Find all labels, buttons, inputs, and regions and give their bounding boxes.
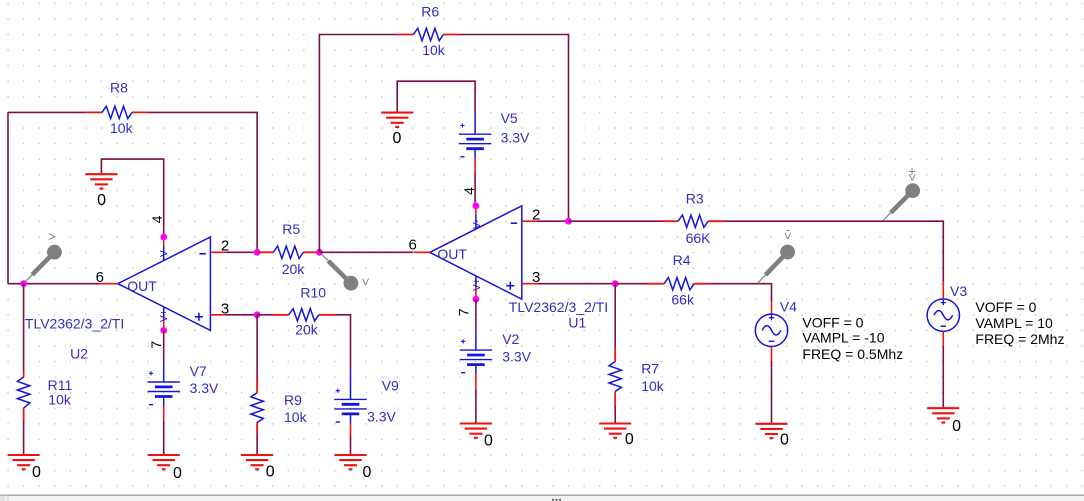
- label V3 VOFF: [975, 299, 1036, 315]
- wire V2 to ground: [475, 389, 477, 423]
- label R7 value 10k: [641, 378, 665, 394]
- label R8 value 10k: [110, 120, 134, 136]
- op-amp U2 output pin 6 stub: [99, 283, 118, 285]
- svg-text:4: 4: [149, 215, 165, 223]
- svg-text:V3: V3: [950, 283, 967, 299]
- op-amp U2 pin 7 stub: [163, 307, 165, 330]
- wire R11 drop: [23, 284, 25, 370]
- label V9: [382, 378, 399, 394]
- svg-text:6: 6: [409, 237, 417, 254]
- svg-text:0: 0: [625, 431, 634, 448]
- svg-text:FREQ = 0.5Mhz: FREQ = 0.5Mhz: [802, 346, 903, 362]
- op-amp U2 pin number 4: [149, 215, 165, 223]
- node U2 pin4 junction: [160, 234, 167, 241]
- op-amp U1 V- label: [472, 220, 483, 229]
- svg-text:3.3V: 3.3V: [501, 129, 530, 145]
- svg-text:>: >: [781, 232, 796, 240]
- label V4 VOFF: [802, 315, 863, 331]
- label V2: [502, 331, 519, 347]
- label R3 value 66K: [686, 230, 712, 246]
- op-amp U2 pin number 2: [221, 238, 229, 255]
- wire ground G1 to U2 pin4: [101, 159, 163, 237]
- op-amp U1 pin number 3: [532, 269, 540, 286]
- resistor R10: [273, 309, 335, 321]
- wire R10 to V9: [335, 315, 351, 370]
- label R6: [421, 4, 439, 20]
- op-amp U2 minus mark: [199, 253, 205, 255]
- svg-text:6: 6: [96, 269, 104, 286]
- label V4: [780, 298, 797, 314]
- op-amp U1 pin 7 stub: [475, 276, 477, 300]
- label R10: [300, 285, 326, 301]
- svg-text:>: >: [48, 229, 56, 244]
- svg-text:3.3V: 3.3V: [502, 349, 531, 365]
- op-amp U1 output pin 6 stub: [414, 251, 431, 253]
- op-amp U1 pin 4 stub: [475, 206, 477, 229]
- wire U1 pin7 to V2: [475, 299, 477, 327]
- ground below R9: [241, 455, 273, 469]
- voltage source V4 stub bottom: [771, 347, 773, 361]
- voltage source V4 stub top: [771, 302, 773, 315]
- svg-text:TLV2362/3_2/TI: TLV2362/3_2/TI: [509, 299, 608, 315]
- wire R3 to V3: [724, 221, 943, 282]
- resistor R6: [397, 28, 459, 40]
- probe marker minus near V4: [758, 222, 796, 283]
- wire R3 lead-in: [569, 220, 664, 222]
- label V3 FREQ: [975, 331, 1064, 347]
- svg-text:R3: R3: [686, 191, 704, 207]
- label net 0 G1: [97, 192, 106, 209]
- wire V5 plus loop: [397, 81, 475, 112]
- svg-text:R10: R10: [300, 285, 326, 301]
- wire U1 pin2 to R3 junction: [537, 220, 568, 222]
- label R8: [110, 79, 128, 95]
- svg-text:3.3V: 3.3V: [190, 380, 219, 396]
- svg-text:66K: 66K: [686, 230, 712, 246]
- resistor R3: [662, 215, 724, 227]
- voltage source V4: [755, 314, 787, 346]
- op-amp U2 plus mark: [195, 313, 203, 321]
- svg-text:VAMPL = 10: VAMPL = 10: [975, 315, 1053, 331]
- wire R5 right to U1 output: [319, 251, 413, 253]
- svg-text:>: >: [905, 174, 920, 182]
- ground below V2: [460, 424, 492, 438]
- wire U1 pin3 to R4 junction: [537, 283, 615, 285]
- op-amp U2 pin 2 stub: [210, 251, 226, 253]
- label U2 part name: [25, 316, 124, 332]
- ground G-V5: [381, 113, 413, 127]
- svg-text:R7: R7: [641, 361, 659, 377]
- svg-text:10k: 10k: [48, 392, 72, 408]
- op-amp U2 pin 4 stub: [163, 237, 165, 260]
- voltage source V3: [927, 299, 959, 331]
- svg-text:R9: R9: [284, 392, 302, 408]
- svg-text:0: 0: [780, 432, 789, 449]
- op-amp U1 V+ label: [472, 278, 483, 291]
- svg-text:20k: 20k: [295, 322, 319, 338]
- node U2 pin7 junction: [160, 327, 167, 334]
- svg-text:0: 0: [32, 464, 41, 481]
- svg-text:VOFF = 0: VOFF = 0: [802, 315, 863, 331]
- label R5 value 20k: [282, 261, 306, 277]
- op-amp U2 pin number 6: [96, 269, 104, 286]
- svg-text:V-: V-: [159, 248, 170, 257]
- svg-text:V+: V+: [159, 309, 170, 322]
- voltage source V9: [334, 370, 366, 436]
- wire R6 right vertical: [460, 35, 569, 222]
- node R5 right junction: [316, 249, 323, 256]
- ground below V9: [335, 455, 367, 469]
- wire R8 left segment: [8, 111, 86, 113]
- svg-text:V4: V4: [780, 298, 797, 314]
- svg-text:V2: V2: [502, 331, 519, 347]
- label V4 VAMPL: [802, 330, 884, 346]
- svg-text:0: 0: [362, 464, 371, 481]
- voltage source V2: [460, 327, 492, 389]
- op-amp U1 pin number 6: [409, 237, 417, 254]
- probe marker plus on R3 wire: [883, 164, 920, 221]
- op-amp U2 body: [118, 237, 211, 330]
- op-amp U1 pin number 7: [456, 308, 472, 316]
- svg-text:U2: U2: [70, 346, 88, 362]
- op-amp U1 pin number 2: [532, 206, 540, 223]
- svg-text:0: 0: [266, 464, 275, 481]
- resistor R5: [257, 246, 319, 258]
- label net 0 below V9: [362, 464, 371, 481]
- label V5 value 3.3V: [501, 129, 530, 145]
- wire R9 drop: [256, 315, 258, 378]
- svg-text:R6: R6: [421, 4, 439, 20]
- wire R7 to ground: [614, 406, 616, 424]
- label net 0 below V4: [780, 432, 789, 449]
- label R4: [673, 252, 691, 268]
- svg-text:TLV2362/3_2/TI: TLV2362/3_2/TI: [25, 316, 124, 332]
- wire V3 to ground: [942, 346, 944, 408]
- label R9: [284, 392, 302, 408]
- voltage source V5: [459, 112, 491, 172]
- resistor R11: [17, 370, 29, 420]
- svg-text:10k: 10k: [110, 120, 134, 136]
- op-amp U1 OUT label: [437, 246, 467, 262]
- op-amp U1 body: [430, 206, 522, 299]
- label V5: [501, 110, 518, 126]
- voltage source V7: [148, 362, 180, 422]
- label net 0 below V2: [484, 432, 493, 449]
- wire left feedback vertical: [7, 112, 9, 283]
- node R3 junction: [565, 218, 572, 225]
- op-amp U2 pin 3 stub: [210, 314, 226, 316]
- wire V7 to ground: [163, 421, 165, 455]
- resistor R4: [648, 278, 710, 290]
- op-amp U2 pin number 7: [148, 341, 164, 349]
- node R5 left junction: [254, 249, 261, 256]
- svg-text:4: 4: [461, 187, 477, 195]
- svg-text:V5: V5: [501, 110, 518, 126]
- wire R9 to ground: [256, 434, 258, 455]
- op-amp U1 plus mark: [506, 282, 514, 290]
- svg-text:20k: 20k: [282, 261, 306, 277]
- wire R10 lead-in: [257, 314, 273, 316]
- ground below R11: [8, 455, 40, 469]
- svg-text:R4: R4: [673, 252, 691, 268]
- node U1 pin4 junction: [473, 202, 480, 209]
- wire V5 to U1 pin4: [474, 172, 476, 206]
- ground below V4: [756, 424, 788, 438]
- label net 0 below R11: [32, 464, 41, 481]
- probe marker V2m at R5 right: [321, 253, 370, 290]
- svg-text:V7: V7: [190, 363, 207, 379]
- label R4 value 66k: [671, 291, 695, 307]
- wire R4 to V4: [710, 284, 771, 302]
- wire R6 left vertical: [319, 35, 397, 253]
- resistor R7: [609, 347, 621, 407]
- label R11: [48, 377, 73, 393]
- op-amp U1 minus mark: [511, 222, 517, 224]
- label net 0 below R9: [266, 464, 275, 481]
- svg-text:VAMPL = -10: VAMPL = -10: [802, 330, 884, 346]
- svg-text:VOFF = 0: VOFF = 0: [975, 299, 1036, 315]
- svg-text:OUT: OUT: [437, 246, 467, 262]
- svg-text:V: V: [362, 276, 369, 288]
- svg-text:0: 0: [952, 418, 961, 435]
- label net 0 below R7: [625, 431, 634, 448]
- svg-text:R8: R8: [110, 79, 128, 95]
- wire R11 to ground: [23, 420, 25, 455]
- op-amp U2 V- label: [159, 248, 170, 257]
- ground below R7: [599, 424, 631, 438]
- svg-text:V9: V9: [382, 378, 399, 394]
- voltage source V3 stub bottom: [942, 331, 944, 346]
- svg-text:V+: V+: [472, 278, 483, 291]
- wire R7 drop: [614, 284, 616, 347]
- label V2 value 3.3V: [502, 349, 531, 365]
- label R7: [641, 361, 659, 377]
- label R11 value 10k: [48, 392, 72, 408]
- node R10 left junction: [254, 311, 261, 318]
- svg-text:0: 0: [393, 130, 402, 147]
- svg-text:10k: 10k: [284, 409, 308, 425]
- svg-text:FREQ = 2Mhz: FREQ = 2Mhz: [975, 331, 1064, 347]
- svg-text:10k: 10k: [641, 378, 665, 394]
- wire R4 lead-in: [615, 283, 649, 285]
- label V4 FREQ: [802, 346, 903, 362]
- op-amp U1 pin 2 stub: [522, 220, 537, 222]
- svg-text:R5: R5: [282, 221, 300, 237]
- wire U2 pin3 to R10: [226, 314, 257, 316]
- op-amp U2 pin number 3: [221, 300, 229, 317]
- svg-text:0: 0: [484, 432, 493, 449]
- voltage source V3 stub top: [942, 282, 944, 299]
- op-amp U1 pin number 4: [461, 187, 477, 195]
- label R3: [686, 191, 704, 207]
- wire U2 pin7 to V7: [163, 330, 165, 361]
- label V9 value 3.3V: [367, 409, 396, 425]
- label net 0 below V3: [952, 418, 961, 435]
- label R9 value 10k: [284, 409, 308, 425]
- label V7: [190, 363, 207, 379]
- svg-text:U1: U1: [568, 314, 586, 330]
- node probe junction U2 out: [20, 280, 27, 287]
- op-amp U1 pin 3 stub: [522, 283, 537, 285]
- svg-text:7: 7: [148, 341, 164, 349]
- node R4 junction: [612, 280, 619, 287]
- svg-text:7: 7: [456, 308, 472, 316]
- label V3 VAMPL: [975, 315, 1053, 331]
- svg-text:OUT: OUT: [127, 278, 157, 294]
- label net 0 below V7: [173, 465, 182, 482]
- ground G1: [85, 174, 117, 188]
- svg-text:0: 0: [97, 192, 106, 209]
- probe marker V1 at U2 output: [25, 229, 62, 283]
- bottom scrollbar: [0, 495, 1084, 501]
- resistor R8: [86, 106, 148, 118]
- label V3: [950, 283, 967, 299]
- op-amp U2 V+ label: [159, 309, 170, 322]
- label net 0 G-V5: [393, 130, 402, 147]
- label U1: [568, 314, 586, 330]
- wire V4 to ground: [771, 361, 773, 424]
- svg-text:66k: 66k: [671, 291, 695, 307]
- ground below V3: [927, 408, 959, 422]
- label V7 value 3.3V: [190, 380, 219, 396]
- label U2: [70, 346, 88, 362]
- op-amp U2 OUT label: [127, 278, 157, 294]
- resistor R9: [251, 378, 263, 434]
- label R6 value 10k: [422, 42, 446, 58]
- label U1 part name: [509, 299, 608, 315]
- wire R8 right to R5 junction: [148, 112, 257, 252]
- wire V9 to ground: [350, 436, 352, 455]
- label R5: [282, 221, 300, 237]
- ground below V7: [148, 455, 180, 469]
- svg-text:10k: 10k: [422, 42, 446, 58]
- label R10 value 20k: [295, 322, 319, 338]
- wire U2 output: [8, 283, 99, 285]
- svg-text:3.3V: 3.3V: [367, 409, 396, 425]
- svg-text:V-: V-: [472, 220, 483, 229]
- node U1 pin7 junction: [473, 296, 480, 303]
- wire U2 pin2 to R5: [226, 251, 257, 253]
- svg-text:0: 0: [173, 465, 182, 482]
